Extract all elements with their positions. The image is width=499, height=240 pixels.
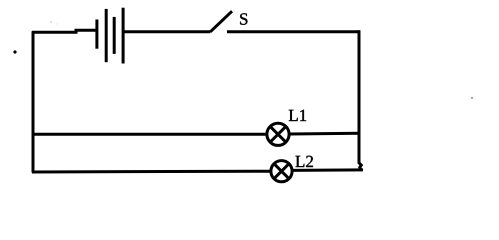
- stray faint dot right: [471, 97, 473, 99]
- stray ink dot left: [13, 50, 16, 53]
- wire: top-left horizontal to battery (with hand-drawn jog): [32, 30, 97, 32]
- wire: middle branch right of L1: [290, 132, 360, 136]
- lamp L2 cross: [274, 164, 289, 179]
- lamp L1 circle: [267, 123, 289, 145]
- battery B1 plate 1 (short negative): [95, 20, 98, 49]
- wire: bottom branch left of L2: [32, 170, 271, 174]
- switch S arm (open): [210, 11, 232, 32]
- wire: left vertical: [32, 31, 35, 172]
- lamp L2 circle: [271, 161, 292, 182]
- wire: switch to top-right corner: [227, 30, 360, 33]
- wire: battery to switch: [123, 30, 211, 33]
- faint specks above top wire: [50, 21, 52, 23]
- lamp L1 cross: [270, 126, 286, 142]
- label L2: [295, 156, 312, 167]
- label L1: [289, 110, 306, 121]
- wire: middle branch left of L1: [33, 133, 266, 136]
- wire: right vertical: [359, 30, 361, 170]
- label S: [240, 13, 247, 24]
- battery B1 plate 2 (long positive): [105, 9, 108, 62]
- battery B1 plate 4 (long positive): [122, 8, 125, 64]
- wire: bottom branch right of L2: [292, 168, 363, 172]
- battery B1 plate 3 (negative): [113, 17, 116, 54]
